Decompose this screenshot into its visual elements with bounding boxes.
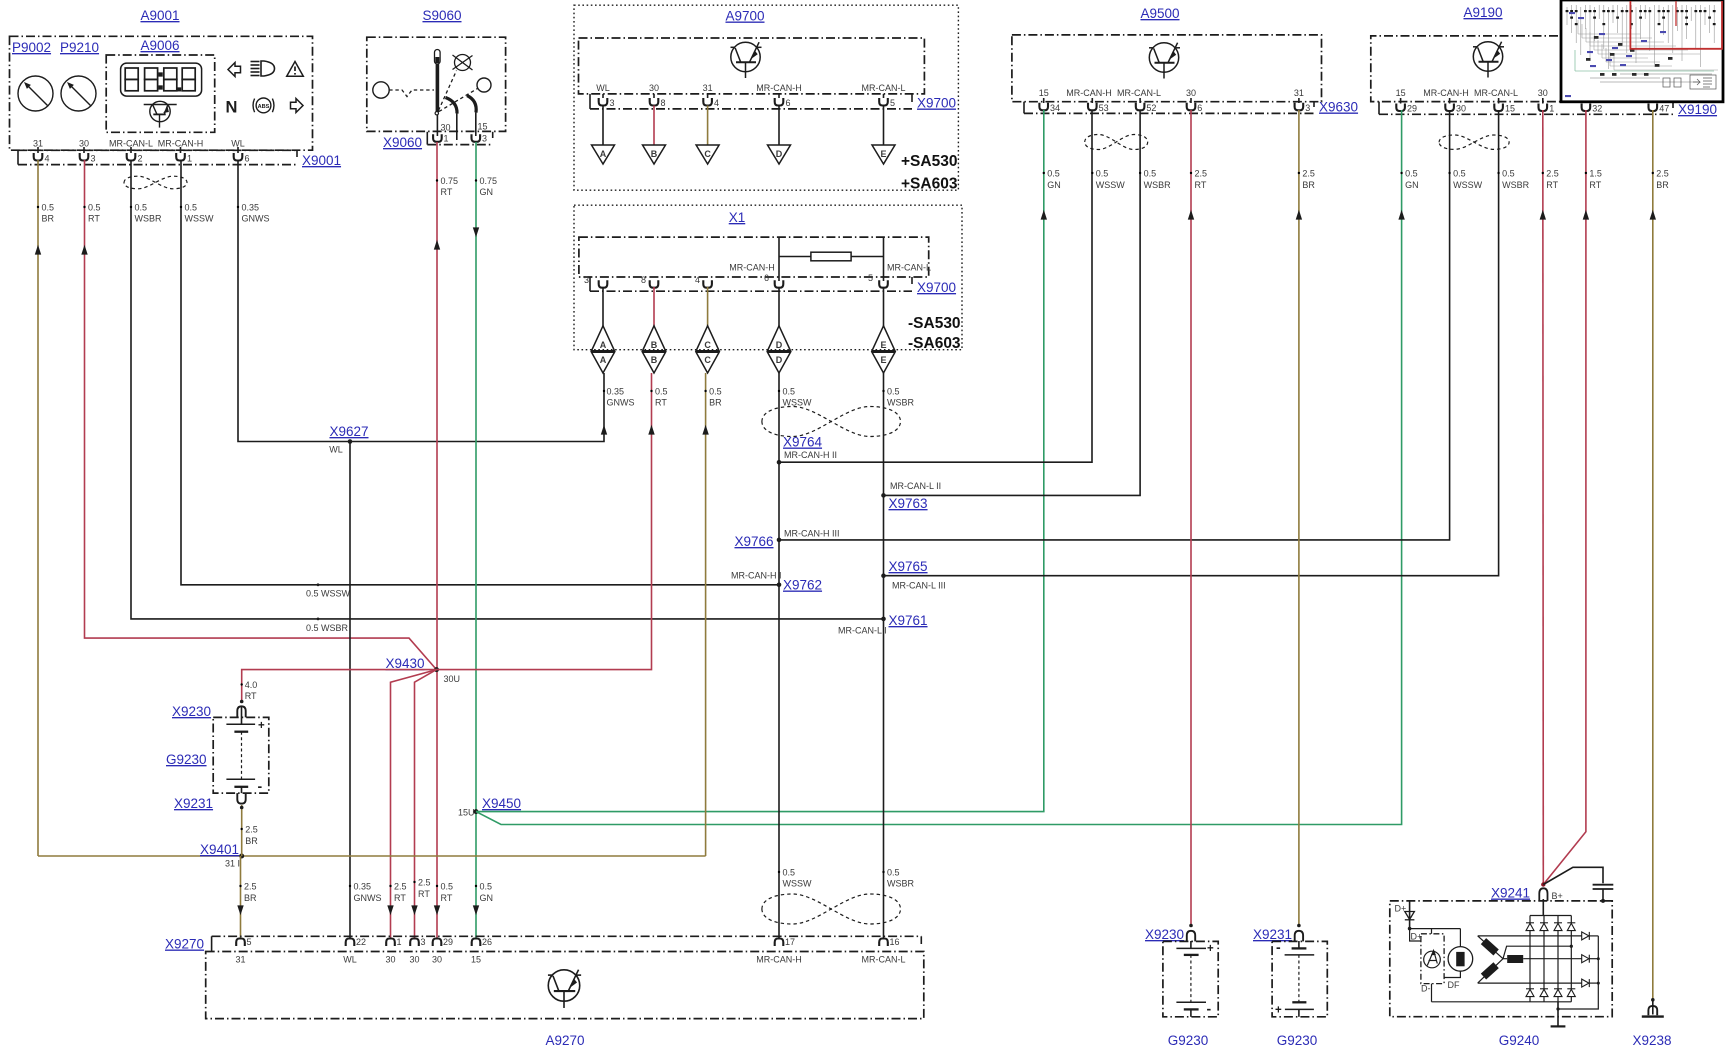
svg-text:0.5: 0.5 (783, 868, 796, 878)
node X9766 MR-CAN-H III to A9190 pin30 (734, 110, 1449, 549)
wire label 0.5 RT at X9270.29 (434, 905, 440, 915)
svg-text:MR-CAN-L: MR-CAN-L (1474, 88, 1518, 98)
pin 1 / 30 (385, 937, 401, 965)
svg-text:X9231: X9231 (1253, 927, 1292, 942)
pin 30 (1445, 98, 1466, 114)
svg-text:2.5: 2.5 (244, 882, 257, 892)
svg-text:1: 1 (187, 154, 192, 164)
svg-text:BR: BR (709, 398, 722, 408)
wire 1.5 RT A9190 pin32 to X9241 (1543, 110, 1586, 885)
svg-text:0.5: 0.5 (709, 387, 722, 397)
wire end dot (240, 700, 244, 704)
svg-text:X9765: X9765 (889, 559, 928, 574)
svg-text:3: 3 (584, 275, 589, 285)
pin 4 (703, 94, 719, 108)
connector X9231 symbol (1295, 931, 1303, 942)
pin 3 / 30 (409, 937, 425, 965)
cell plates bottom (1292, 1001, 1306, 1003)
svg-text:3: 3 (91, 154, 96, 164)
control unit A9700 outer box (574, 5, 958, 190)
svg-text:+: + (258, 720, 265, 732)
svg-text:52: 52 (1146, 103, 1156, 113)
svg-text:X9401: X9401 (200, 842, 239, 857)
right rail (1558, 936, 1598, 1009)
svg-text:B: B (651, 340, 658, 350)
svg-text:15: 15 (1396, 88, 1406, 98)
svg-text:0.5: 0.5 (655, 387, 668, 397)
svg-text:15: 15 (1505, 104, 1515, 114)
triangle C (696, 145, 719, 164)
svg-text:+: + (1275, 1005, 1282, 1017)
cell plates bottom (1176, 1001, 1206, 1003)
transistor U-A9700 (731, 42, 762, 78)
svg-text:X9241: X9241 (1491, 886, 1530, 901)
svg-text:A9006: A9006 (140, 38, 179, 53)
svg-text:31: 31 (235, 955, 245, 965)
wire 2.5 RT A9500 pin6 to battery G9230 (1190, 110, 1192, 925)
contact lead 15 (475, 113, 477, 137)
svg-text:4.0: 4.0 (245, 680, 258, 690)
X1 outer box (574, 205, 962, 350)
svg-text:X1: X1 (729, 210, 746, 225)
wire pin4 to up-triangle C (707, 287, 709, 326)
transistor U-A9500 (1149, 43, 1180, 79)
ground lead (1557, 1002, 1559, 1027)
connector ground symbol X9238 (1652, 1000, 1654, 1015)
cell link dashed (241, 732, 243, 780)
up triangle A (592, 326, 615, 351)
connector row X9270 (212, 935, 922, 937)
svg-text:-: - (1207, 1001, 1212, 1017)
key linkage dashed (389, 90, 434, 97)
wire pin6 to triangle D (778, 106, 780, 146)
svg-text:0.5: 0.5 (42, 203, 55, 213)
svg-text:26: 26 (482, 937, 492, 947)
pin 6 (234, 147, 250, 164)
wire 2.5 RT X9430 to X9270.1 (391, 670, 437, 939)
svg-text:2.5: 2.5 (1546, 169, 1559, 179)
svg-text:0.5: 0.5 (88, 203, 101, 213)
svg-text:X9238: X9238 (1632, 1033, 1671, 1046)
svg-text:WSSW: WSSW (783, 879, 813, 889)
pin 47 (1649, 104, 1670, 114)
wire end dot (1651, 998, 1655, 1002)
svg-text:0.5: 0.5 (887, 387, 900, 397)
icon turn-right indicator (291, 99, 304, 113)
svg-text:0.5: 0.5 (783, 387, 796, 397)
up triangle E (872, 326, 895, 351)
svg-text:WSSW: WSSW (1096, 180, 1126, 190)
svg-text:30: 30 (385, 955, 395, 965)
svg-text:30: 30 (441, 123, 451, 133)
wire pin8 to triangle B (RT) (653, 106, 655, 146)
phase line 3 (1478, 982, 1582, 984)
svg-text:E: E (880, 149, 886, 159)
wire pin5 to up-triangle E (883, 287, 885, 326)
svg-text:53: 53 (1099, 103, 1109, 113)
svg-text:X9190: X9190 (1678, 102, 1717, 117)
wire 0.5 RT from X9001.3 to node X9430 (85, 160, 437, 670)
diode D+ (1405, 901, 1415, 929)
node X9762 MR-CAN-H I (731, 571, 822, 593)
rectifier top bus (1530, 915, 1571, 917)
pin 8 lower (641, 275, 658, 288)
wire 0.5 GN X9450 to A9190 pin29 (476, 110, 1402, 825)
svg-text:X9766: X9766 (734, 534, 773, 549)
svg-text:MR-CAN-H I: MR-CAN-H I (731, 571, 782, 581)
svg-text:2.5: 2.5 (1195, 169, 1208, 179)
control unit A9190 box (1371, 36, 1673, 102)
pin 53 (1088, 98, 1109, 113)
actuator cap (435, 50, 441, 65)
svg-text:4: 4 (45, 154, 50, 164)
svg-text:GNWS: GNWS (354, 893, 382, 903)
svg-text:0.5: 0.5 (135, 203, 148, 213)
svg-text:30U: 30U (444, 674, 461, 684)
svg-text:WL: WL (329, 445, 343, 455)
pin 29 / 30 (432, 937, 453, 965)
svg-text:A: A (600, 355, 607, 365)
transistor symbol in A9006 (144, 101, 177, 127)
svg-text:X9450: X9450 (482, 796, 521, 811)
down triangle D (768, 352, 791, 373)
wire 0.75 RT from X9060.1 through X9430 to X9270.29 (436, 142, 438, 939)
svg-text:GN: GN (480, 187, 494, 197)
wire pin8 to up-triangle B (653, 287, 655, 326)
svg-text:X9700: X9700 (917, 280, 956, 295)
pin 4 lower (695, 275, 712, 288)
svg-text:E: E (880, 355, 886, 365)
control unit A9700 inner box (579, 38, 925, 94)
svg-text:32: 32 (1592, 104, 1602, 114)
svg-text:2: 2 (138, 154, 143, 164)
down triangle E (872, 352, 895, 373)
pin 3 lower (584, 275, 607, 288)
rectifier bottom bus (1432, 1001, 1572, 1003)
svg-text:E: E (880, 340, 886, 350)
svg-text:47: 47 (1659, 104, 1669, 114)
contact lead 30 (436, 115, 438, 137)
wire WL from X9627 to X9270.22 (349, 442, 351, 940)
svg-text:RT: RT (245, 691, 257, 701)
svg-text:D: D (776, 355, 783, 365)
svg-text:WSBR: WSBR (135, 214, 163, 224)
contact arc 2 (467, 96, 476, 113)
svg-text:MR-CAN-L III: MR-CAN-L III (892, 581, 946, 591)
svg-text:A9270: A9270 (545, 1033, 584, 1046)
svg-text:4: 4 (714, 98, 719, 108)
svg-text:GNWS: GNWS (242, 214, 270, 224)
twisted pair symbol A9500 CAN (1085, 135, 1148, 150)
svg-text:+SA530: +SA530 (901, 153, 957, 170)
svg-text:6: 6 (1197, 103, 1202, 113)
wire label 0.35 GNWS at X9270.22 (349, 882, 382, 904)
svg-text:3: 3 (1305, 103, 1310, 113)
svg-text:MR-CAN-H: MR-CAN-H (756, 83, 802, 93)
svg-text:GNWS: GNWS (607, 398, 635, 408)
svg-text:G9230: G9230 (1168, 1033, 1209, 1046)
svg-text:6: 6 (764, 273, 769, 283)
svg-text:MR-CAN-H II: MR-CAN-H II (784, 450, 837, 460)
svg-text:31: 31 (703, 83, 713, 93)
svg-text:B+: B+ (1552, 891, 1563, 901)
svg-text:3: 3 (610, 98, 615, 108)
wire pin4 to triangle C (BR) (707, 106, 709, 146)
wire 0.5 WSSW from X9001.1 to node X9762 (181, 160, 779, 585)
svg-text:17: 17 (785, 937, 795, 947)
twisted pair symbol X9270 CAN (762, 894, 901, 924)
rectifier top diodes (1526, 923, 1575, 931)
svg-text:30: 30 (1456, 104, 1466, 114)
node X9765 MR-CAN-L III to A9190 pin15 (881, 110, 1498, 591)
svg-text:0.75: 0.75 (480, 176, 498, 186)
node X9241 junction (1541, 882, 1545, 886)
svg-text:6: 6 (245, 154, 250, 164)
contact lead middle (456, 114, 458, 141)
pin 16 / MR-CAN-L (862, 937, 906, 965)
svg-text:X9627: X9627 (329, 424, 368, 439)
svg-text:-SA530: -SA530 (908, 315, 961, 332)
svg-text:WSBR: WSBR (887, 398, 915, 408)
wire 2.5 RT A9190 pin1 to X9241 (1542, 110, 1545, 885)
svg-text:8: 8 (661, 98, 666, 108)
wire labels A9500 CAN pair (1091, 169, 1125, 191)
battery G9230 box (1163, 941, 1218, 1016)
svg-text:DF: DF (1448, 980, 1460, 990)
transistor U-A9190 (1473, 42, 1504, 78)
pin 5 lower (868, 273, 888, 288)
stub MR-CAN-L (883, 238, 885, 281)
rectifier columns (1529, 916, 1531, 1002)
connector row X9001 (18, 149, 297, 151)
svg-text:BR: BR (42, 214, 55, 224)
node X9450 junction (458, 796, 521, 818)
wire end dot (1189, 924, 1193, 928)
svg-text:WSSW: WSSW (1453, 180, 1483, 190)
pin 6 (1187, 98, 1203, 113)
svg-text:31: 31 (1294, 88, 1304, 98)
svg-text:1: 1 (444, 134, 449, 144)
up triangle B (643, 326, 666, 351)
pin 3 (599, 94, 615, 108)
svg-text:MR-CAN-H: MR-CAN-H (1066, 88, 1112, 98)
svg-text:0.5: 0.5 (1144, 169, 1157, 179)
svg-text:X9270: X9270 (165, 937, 204, 952)
pin 52 (1136, 98, 1157, 113)
svg-text:X9231: X9231 (174, 796, 213, 811)
wire 2.5 BR A9190 pin47 to X9238 (1652, 110, 1654, 1000)
node X9761 MR-CAN-L I (838, 613, 928, 636)
svg-text:1: 1 (397, 937, 402, 947)
svg-text:2.5: 2.5 (394, 882, 407, 892)
svg-text:MR-CAN-H III: MR-CAN-H III (784, 529, 840, 539)
twisted pair symbol X1 CAN (762, 407, 901, 437)
svg-text:RT: RT (418, 889, 430, 899)
svg-text:ABS: ABS (258, 104, 270, 110)
svg-text:WSBR: WSBR (887, 879, 915, 889)
wire MR-CAN-H vertical from X1 triangle D to X9270.17 (778, 373, 780, 939)
pin 4 (34, 147, 50, 164)
node X9627 (329, 424, 368, 455)
svg-text:BR: BR (1302, 180, 1315, 190)
svg-text:X9230: X9230 (172, 704, 211, 719)
wire 4.0 RT X9430 to battery X9230 (242, 670, 437, 703)
pin 15 (1494, 98, 1515, 114)
pin 32 (1582, 104, 1603, 114)
svg-text:WSSW: WSSW (783, 398, 813, 408)
contact position circle (477, 78, 491, 92)
svg-text:29: 29 (443, 937, 453, 947)
svg-text:-: - (1276, 939, 1281, 955)
lamp-off symbol (crossed circle) (453, 55, 473, 71)
svg-text:29: 29 (1407, 104, 1417, 114)
svg-text:15U: 15U (458, 808, 475, 818)
connector X9230 symbol (1187, 931, 1195, 942)
svg-text:0.5: 0.5 (1096, 169, 1109, 179)
down triangle B (643, 352, 666, 373)
svg-text:MR-CAN-H: MR-CAN-H (756, 955, 802, 965)
svg-text:X9230: X9230 (1145, 927, 1184, 942)
switch throw dashed positions (439, 71, 457, 111)
svg-text:G9230: G9230 (1277, 1033, 1318, 1046)
triangle E (872, 145, 895, 164)
ground G9240 (1551, 1025, 1566, 1027)
connector X9241 symbol (1539, 888, 1547, 901)
control unit A9270 box (206, 952, 924, 1019)
svg-text:G9240: G9240 (1499, 1033, 1540, 1046)
svg-text:30: 30 (432, 955, 442, 965)
svg-text:5: 5 (890, 98, 895, 108)
svg-text:C: C (704, 355, 711, 365)
svg-text:15: 15 (1039, 88, 1049, 98)
alternator G9240 box (1390, 901, 1612, 1017)
wire 0.5 GN X9450 to A9500 pin34 (476, 110, 1044, 812)
svg-text:A: A (600, 149, 607, 159)
slip ring with brush (1448, 947, 1473, 972)
wire labels A9190 CAN pair (1448, 169, 1482, 191)
icon headlight high beam (251, 61, 275, 76)
svg-text:MR-CAN-L: MR-CAN-L (862, 83, 906, 93)
ground bus 31 brown (38, 855, 706, 857)
switch S9060 box (367, 37, 506, 131)
svg-text:22: 22 (356, 937, 366, 947)
pin 8 (650, 94, 666, 108)
gauge P9210 (61, 76, 96, 111)
wire 0.5 WSBR from X9001.2 to node X9761 (131, 160, 884, 619)
control unit A9500 box (1012, 35, 1322, 102)
svg-text:0.35: 0.35 (354, 882, 372, 892)
down triangle C (696, 352, 719, 373)
pin 6 (775, 94, 791, 108)
svg-text:0.5: 0.5 (441, 882, 454, 892)
icon ABS (253, 98, 274, 113)
svg-text:MR-CAN-L II: MR-CAN-L II (890, 481, 941, 491)
svg-text:-: - (258, 778, 263, 794)
node X9401 (200, 842, 244, 869)
svg-text:0.5: 0.5 (1405, 169, 1418, 179)
terminating resistor R-X1 (811, 252, 851, 261)
stub MR-CAN-H (778, 238, 780, 281)
cell link dashed (1190, 955, 1192, 1002)
svg-text:B: B (651, 355, 658, 365)
svg-text:0.35: 0.35 (242, 203, 260, 213)
svg-text:RT: RT (394, 893, 406, 903)
wire 0.75 GN from X9060.3 through X9450 to X9270.26 (475, 142, 477, 939)
svg-text:30: 30 (1538, 88, 1548, 98)
phase line 1 (1478, 935, 1582, 937)
svg-text:MR-CAN-L I: MR-CAN-L I (838, 626, 887, 636)
up triangle D (768, 326, 791, 351)
svg-text:15: 15 (478, 122, 488, 132)
7-segment digits 88:8.8 (125, 68, 195, 91)
svg-text:MR-CAN-L: MR-CAN-L (1117, 88, 1161, 98)
svg-text:34: 34 (1050, 103, 1060, 113)
svg-text:MR-CAN-L: MR-CAN-L (887, 263, 931, 273)
svg-text:GN: GN (1047, 180, 1061, 190)
pin 17 / MR-CAN-H (756, 937, 802, 965)
rectifier bottom diodes (1526, 989, 1575, 997)
svg-text:0.75: 0.75 (441, 176, 459, 186)
up triangle C (696, 326, 719, 351)
svg-text:BR: BR (244, 893, 257, 903)
icon turn-left indicator (228, 63, 241, 77)
svg-text:WL: WL (596, 83, 610, 93)
svg-text:16: 16 (890, 937, 900, 947)
contact arc 1 (446, 98, 458, 114)
cell plates bottom (226, 778, 255, 780)
pin 1 (176, 147, 192, 164)
svg-text:BR: BR (245, 836, 258, 846)
svg-text:RT: RT (441, 187, 453, 197)
svg-text:30: 30 (1186, 88, 1196, 98)
svg-text:RT: RT (655, 398, 667, 408)
svg-text:3: 3 (482, 134, 487, 144)
regulator symbol circle A (1424, 950, 1441, 968)
svg-text:MR-CAN-L: MR-CAN-L (862, 955, 906, 965)
terminal label DF (1444, 971, 1460, 977)
svg-text:A9001: A9001 (140, 8, 179, 23)
svg-text:A: A (600, 340, 607, 350)
cell plates top (1176, 947, 1206, 949)
gauge P9002 (18, 76, 53, 111)
svg-text:WSBR: WSBR (1144, 180, 1172, 190)
pin 29 (1396, 98, 1417, 114)
svg-text:31 I: 31 I (225, 859, 240, 869)
svg-text:0.5: 0.5 (1502, 169, 1515, 179)
wire 2.5 BR X9401 to X9270.5 (240, 856, 242, 939)
svg-text:MR-CAN-H: MR-CAN-H (729, 263, 775, 273)
svg-text:+SA603: +SA603 (901, 176, 958, 193)
cell link dashed (1298, 955, 1300, 1002)
pin 5 / 31 (235, 937, 251, 965)
svg-text:X9060: X9060 (383, 135, 422, 150)
svg-text:WSBR: WSBR (1502, 180, 1530, 190)
capacitor branch wire (1543, 867, 1603, 884)
pin 3 (80, 147, 96, 164)
svg-text:0.5: 0.5 (185, 203, 198, 213)
switch actuator bar (436, 64, 440, 112)
svg-text:S9060: S9060 (422, 8, 461, 23)
svg-text:GN: GN (1405, 180, 1419, 190)
svg-text:X9763: X9763 (889, 496, 928, 511)
svg-text:-SA603: -SA603 (908, 335, 961, 352)
svg-text:X9764: X9764 (783, 435, 823, 450)
wire label 2.5 RT at X9270.1 (387, 905, 393, 915)
svg-text:30: 30 (649, 83, 659, 93)
svg-text:15: 15 (471, 955, 481, 965)
svg-text:D: D (776, 149, 783, 159)
node X9763 MR-CAN-L II to A9500 pin52 (881, 110, 1140, 511)
